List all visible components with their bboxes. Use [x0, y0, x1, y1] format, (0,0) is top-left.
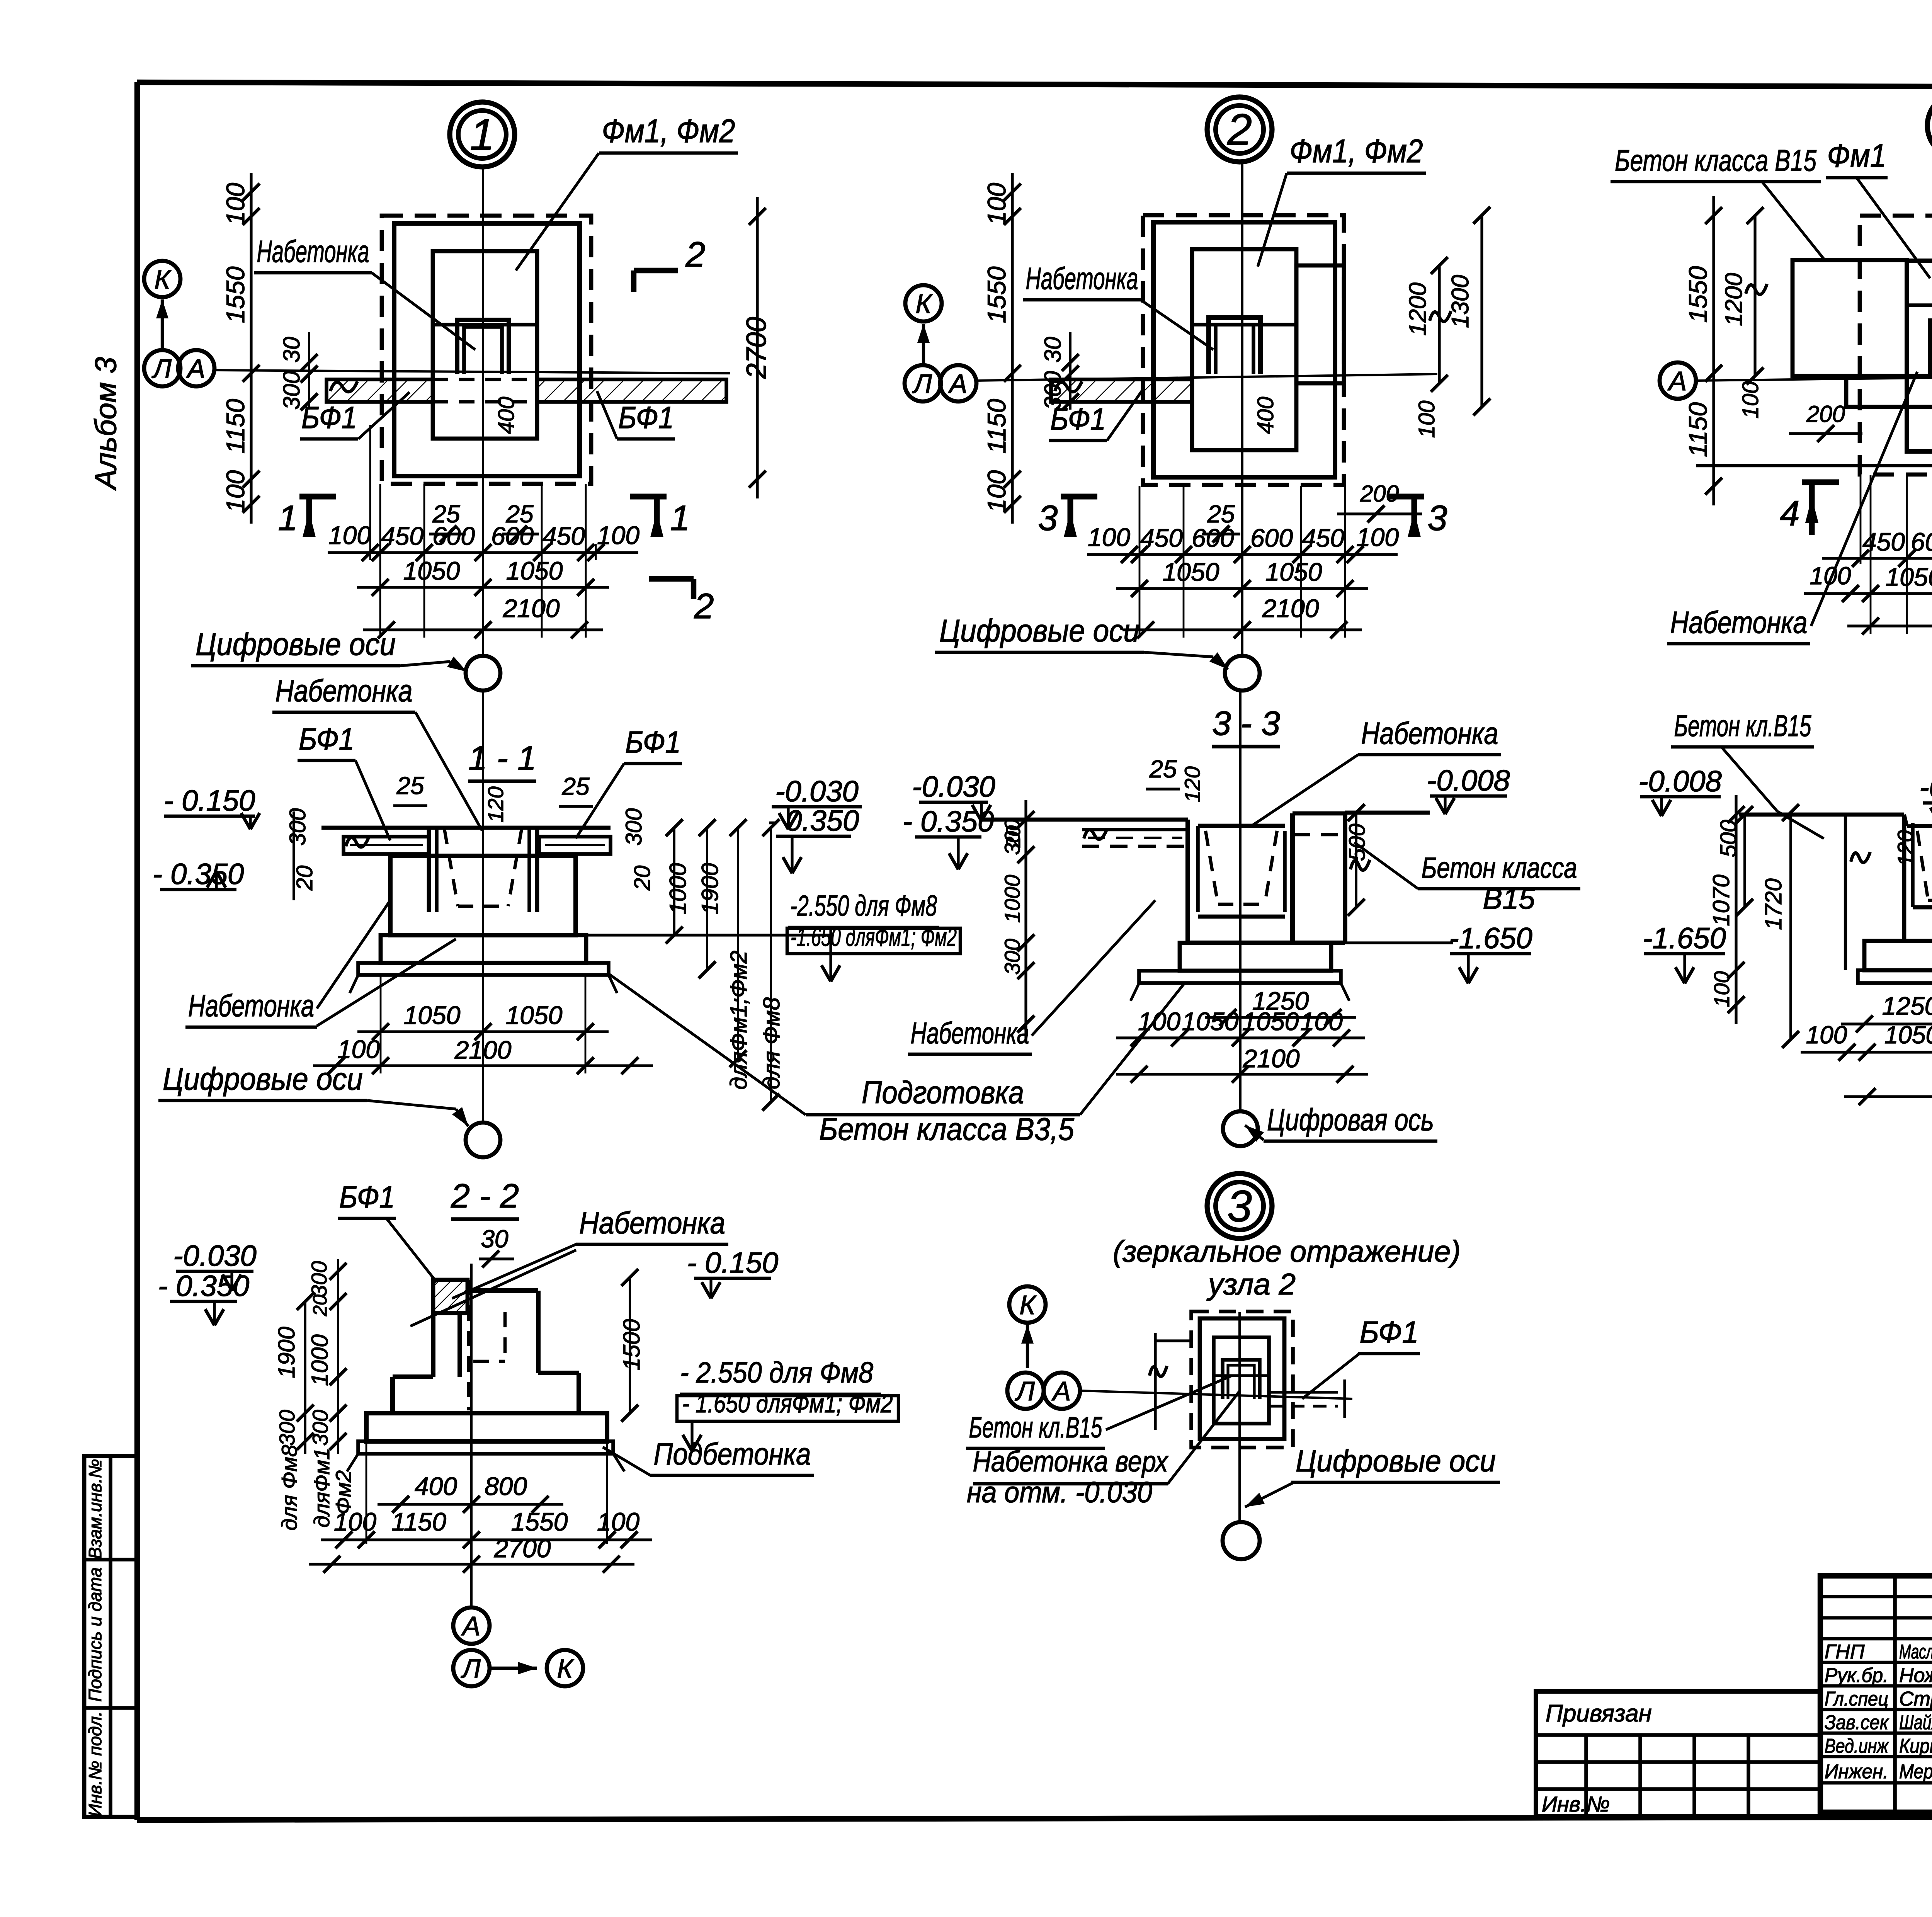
svg-text:Подпись и дата: Подпись и дата [85, 1567, 105, 1702]
svg-text:1250: 1250 [1882, 992, 1932, 1020]
svg-text:100: 100 [597, 1507, 639, 1536]
svg-text:2: 2 [1227, 105, 1252, 155]
svg-text:Бетон кл.В15: Бетон кл.В15 [969, 1411, 1103, 1444]
svg-text:Набетонка: Набетонка [911, 1016, 1029, 1050]
svg-text:100: 100 [1088, 523, 1130, 551]
svg-text:1050: 1050 [1886, 563, 1932, 591]
svg-text:2 - 2: 2 - 2 [451, 1177, 519, 1215]
svg-text:Цифровая ось: Цифровая ось [1267, 1102, 1434, 1137]
svg-text:БФ1: БФ1 [1360, 1315, 1419, 1349]
svg-text:100: 100 [221, 470, 250, 513]
svg-text:узла 2: узла 2 [1206, 1267, 1296, 1301]
svg-text:-0.030: -0.030 [1919, 771, 1932, 804]
svg-text:300: 300 [1000, 939, 1024, 975]
svg-text:- 1.650 дляФм1; Фм2: - 1.650 дляФм1; Фм2 [682, 1389, 893, 1418]
svg-text:1000: 1000 [1000, 875, 1024, 923]
svg-text:1900: 1900 [274, 1327, 299, 1378]
svg-text:600: 600 [432, 522, 475, 550]
svg-text:1050: 1050 [403, 556, 460, 585]
svg-text:100: 100 [328, 521, 371, 549]
svg-text:1: 1 [278, 498, 298, 538]
svg-text:600: 600 [1911, 527, 1932, 556]
svg-text:2100: 2100 [454, 1036, 512, 1064]
svg-text:Вед.инж: Вед.инж [1825, 1735, 1889, 1757]
svg-text:- 0.350: - 0.350 [158, 1270, 250, 1303]
svg-text:БФ1: БФ1 [301, 400, 357, 435]
svg-text:- 0.350: - 0.350 [768, 805, 859, 837]
svg-text:Набетонка: Набетонка [1361, 716, 1498, 750]
svg-text:- 0.350: - 0.350 [153, 858, 244, 891]
svg-text:Бетон класса: Бетон класса [1422, 852, 1577, 885]
svg-text:Масленников: Масленников [1899, 1641, 1932, 1663]
svg-text:1050: 1050 [506, 1001, 563, 1029]
svg-text:Подбетонка: Подбетонка [654, 1437, 811, 1471]
svg-text:1050: 1050 [1884, 1021, 1932, 1049]
svg-text:2: 2 [694, 587, 714, 626]
svg-text:для Фм8: для Фм8 [759, 997, 784, 1089]
svg-text:600: 600 [1192, 524, 1234, 552]
svg-text:30: 30 [481, 1225, 509, 1253]
svg-text:-0.030: -0.030 [912, 771, 995, 803]
svg-text:2100: 2100 [503, 594, 560, 623]
svg-text:1150: 1150 [1684, 402, 1712, 457]
svg-text:200: 200 [1806, 401, 1845, 427]
svg-text:Фм1: Фм1 [1827, 138, 1886, 174]
svg-text:Цифровые оси: Цифровые оси [939, 613, 1139, 648]
svg-text:1050: 1050 [1265, 558, 1322, 586]
svg-text:120: 120 [1893, 830, 1917, 866]
svg-text:БФ1: БФ1 [618, 400, 674, 435]
svg-text:1050: 1050 [404, 1001, 461, 1029]
svg-text:К: К [154, 264, 172, 294]
svg-text:Л: Л [461, 1653, 481, 1684]
svg-text:К: К [1019, 1290, 1037, 1320]
svg-text:Цифровые оси: Цифровые оси [1296, 1444, 1496, 1478]
svg-text:А: А [1051, 1376, 1071, 1406]
svg-text:Инв.№ подл.: Инв.№ подл. [85, 1711, 105, 1817]
svg-text:Л: Л [912, 369, 932, 399]
svg-text:3: 3 [1038, 498, 1058, 538]
svg-text:- 2.550 для Фм8: - 2.550 для Фм8 [680, 1356, 873, 1389]
svg-text:Взам.инв.№: Взам.инв.№ [85, 1459, 105, 1559]
svg-text:Набетонка: Набетонка [276, 674, 413, 708]
svg-text:100: 100 [1138, 1007, 1180, 1036]
svg-text:1550: 1550 [1684, 266, 1712, 323]
svg-text:300: 300 [279, 371, 304, 410]
svg-text:дляФм1: дляФм1 [310, 1448, 334, 1528]
svg-text:1150: 1150 [221, 399, 250, 454]
svg-text:А: А [186, 354, 206, 384]
svg-text:-0.008: -0.008 [1427, 764, 1510, 797]
svg-text:400: 400 [415, 1472, 457, 1500]
svg-text:дляФм1;Фм2: дляФм1;Фм2 [726, 951, 752, 1090]
svg-text:2100: 2100 [1262, 594, 1319, 623]
svg-text:К: К [557, 1653, 574, 1684]
svg-text:300: 300 [285, 808, 310, 846]
svg-text:А: А [948, 369, 968, 399]
svg-text:Фм1, Фм2: Фм1, Фм2 [1290, 133, 1423, 170]
svg-text:1050: 1050 [1182, 1007, 1239, 1036]
svg-text:- 0.150: - 0.150 [164, 784, 255, 817]
svg-text:Бетон класса В15: Бетон класса В15 [1615, 143, 1816, 177]
svg-text:400: 400 [494, 397, 519, 434]
svg-text:30: 30 [1040, 337, 1066, 363]
svg-text:30: 30 [279, 337, 304, 363]
svg-text:1150: 1150 [391, 1507, 446, 1536]
svg-text:2700: 2700 [741, 317, 772, 379]
svg-text:2100: 2100 [1243, 1044, 1300, 1073]
svg-text:25: 25 [561, 772, 590, 800]
svg-text:-1.650: -1.650 [1449, 922, 1532, 955]
svg-text:Л: Л [151, 354, 172, 384]
svg-text:Стрехнин: Стрехнин [1899, 1688, 1932, 1710]
svg-text:20: 20 [630, 866, 655, 891]
svg-text:1050: 1050 [1163, 558, 1219, 586]
svg-text:400: 400 [1253, 397, 1278, 434]
svg-text:300: 300 [275, 1410, 299, 1446]
svg-text:Шайхратов: Шайхратов [1899, 1711, 1932, 1734]
svg-text:300: 300 [308, 1410, 332, 1446]
svg-text:Фм1, Фм2: Фм1, Фм2 [602, 113, 735, 150]
svg-text:Ножин: Ножин [1899, 1664, 1932, 1687]
svg-text:300: 300 [621, 808, 646, 846]
svg-text:Цифровые оси: Цифровые оси [196, 627, 396, 662]
svg-text:4: 4 [1780, 494, 1799, 533]
svg-text:1720: 1720 [1760, 878, 1786, 930]
svg-text:800: 800 [485, 1472, 527, 1500]
svg-text:100: 100 [1810, 562, 1851, 590]
svg-text:Инв.№: Инв.№ [1542, 1792, 1610, 1816]
svg-text:1200: 1200 [1721, 273, 1747, 326]
svg-text:25: 25 [396, 772, 424, 799]
svg-text:Рук.бр.: Рук.бр. [1825, 1664, 1888, 1687]
svg-text:Набетонка: Набетонка [1670, 605, 1808, 640]
svg-text:на отм. -0.030: на отм. -0.030 [967, 1476, 1152, 1509]
svg-text:Л: Л [1015, 1376, 1035, 1406]
svg-text:Подготовка: Подготовка [862, 1075, 1024, 1110]
svg-text:Цифровые оси: Цифровые оси [163, 1061, 363, 1097]
svg-text:ГНП: ГНП [1825, 1641, 1865, 1663]
svg-text:100: 100 [597, 521, 639, 549]
svg-text:Кирьянова: Кирьянова [1899, 1735, 1932, 1757]
svg-text:1000: 1000 [307, 1334, 333, 1386]
svg-text:120: 120 [483, 786, 508, 822]
svg-text:20: 20 [1002, 825, 1025, 848]
svg-text:К: К [915, 289, 933, 319]
svg-text:-0.030: -0.030 [173, 1240, 257, 1272]
svg-text:-2.550 для Фм8: -2.550 для Фм8 [790, 890, 937, 922]
svg-text:БФ1: БФ1 [299, 722, 354, 756]
svg-text:1550: 1550 [511, 1507, 568, 1536]
svg-text:3: 3 [1227, 1182, 1252, 1231]
svg-text:120: 120 [1180, 766, 1204, 802]
svg-text:100: 100 [1414, 401, 1439, 438]
svg-text:100: 100 [982, 183, 1011, 225]
svg-text:100: 100 [337, 1035, 380, 1063]
svg-text:450: 450 [543, 522, 585, 550]
svg-text:1: 1 [670, 498, 690, 538]
svg-text:100: 100 [1300, 1007, 1343, 1036]
svg-text:(зеркальное отражение): (зеркальное отражение) [1113, 1234, 1461, 1268]
svg-text:300: 300 [307, 1261, 331, 1297]
svg-text:-0.008: -0.008 [1638, 765, 1722, 798]
svg-text:Бетон кл.В15: Бетон кл.В15 [1674, 709, 1811, 743]
svg-text:В15: В15 [1483, 883, 1535, 915]
svg-text:450: 450 [1302, 524, 1344, 552]
svg-text:-1.650: -1.650 [1643, 922, 1726, 955]
svg-text:-0.030: -0.030 [775, 775, 859, 808]
svg-text:Бетон класса В3,5: Бетон класса В3,5 [819, 1112, 1074, 1147]
svg-text:1 - 1: 1 - 1 [468, 739, 536, 777]
svg-text:Набетонка: Набетонка [1026, 261, 1138, 296]
svg-text:для Фм8: для Фм8 [277, 1445, 301, 1531]
svg-text:3 - 3: 3 - 3 [1212, 704, 1280, 742]
svg-text:450: 450 [1862, 527, 1905, 556]
svg-text:БФ1: БФ1 [339, 1180, 395, 1214]
svg-text:БФ1: БФ1 [625, 725, 681, 759]
svg-text:А: А [1667, 366, 1687, 396]
svg-text:А: А [461, 1611, 481, 1641]
svg-text:25: 25 [1149, 755, 1177, 783]
svg-text:1200: 1200 [1405, 282, 1431, 336]
svg-text:1550: 1550 [221, 266, 250, 323]
svg-text:Набетонка: Набетонка [188, 988, 314, 1023]
svg-text:1: 1 [470, 110, 495, 160]
svg-text:100: 100 [1806, 1021, 1847, 1049]
svg-text:1900: 1900 [697, 863, 723, 914]
svg-text:20: 20 [292, 866, 317, 891]
svg-text:Набетонка: Набетонка [257, 234, 369, 269]
svg-text:20: 20 [309, 1294, 331, 1317]
svg-text:1050: 1050 [1242, 1007, 1299, 1036]
svg-text:100: 100 [221, 183, 250, 225]
svg-text:1300: 1300 [1447, 275, 1474, 328]
svg-text:100: 100 [982, 470, 1011, 513]
svg-text:Инжен.: Инжен. [1825, 1761, 1888, 1783]
svg-text:450: 450 [381, 522, 423, 550]
svg-text:Набетонка: Набетонка [579, 1206, 725, 1240]
svg-text:1000: 1000 [665, 863, 691, 914]
svg-text:Зав.сек: Зав.сек [1825, 1711, 1889, 1734]
svg-text:3: 3 [1427, 498, 1447, 538]
svg-text:1150: 1150 [982, 399, 1011, 454]
svg-text:600: 600 [1250, 524, 1293, 552]
svg-text:2: 2 [685, 235, 705, 274]
svg-text:Альбом 3: Альбом 3 [88, 357, 122, 491]
svg-text:- 0.350: - 0.350 [903, 805, 994, 838]
svg-text:Гл.спец: Гл.спец [1825, 1688, 1888, 1710]
svg-text:1070: 1070 [1708, 874, 1734, 926]
svg-text:Набетонка верх: Набетонка верх [973, 1445, 1169, 1478]
svg-text:1050: 1050 [506, 556, 563, 585]
svg-text:450: 450 [1140, 524, 1183, 552]
svg-text:2700: 2700 [494, 1534, 551, 1563]
svg-text:600: 600 [491, 522, 534, 550]
svg-text:Мерзляков: Мерзляков [1899, 1761, 1932, 1783]
svg-text:100: 100 [1738, 381, 1763, 419]
svg-text:БФ1: БФ1 [1050, 402, 1106, 436]
svg-text:100: 100 [1709, 971, 1734, 1007]
svg-text:Фм2: Фм2 [331, 1470, 355, 1514]
svg-text:500: 500 [1345, 824, 1370, 861]
svg-text:- 0.150: - 0.150 [687, 1247, 779, 1279]
svg-text:Привязан: Привязан [1546, 1700, 1652, 1727]
svg-text:1550: 1550 [982, 266, 1011, 323]
svg-text:100: 100 [1356, 523, 1399, 551]
svg-text:1500: 1500 [619, 1319, 645, 1370]
